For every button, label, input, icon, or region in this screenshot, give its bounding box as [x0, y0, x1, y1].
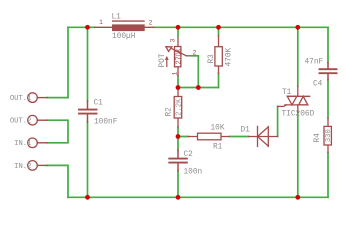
svg-text:100n: 100n	[184, 169, 203, 177]
junction dot bottom C1	[85, 195, 90, 200]
junction dot top triac	[295, 25, 300, 30]
wire right branch C4 R4	[327, 27, 329, 197]
wire top net	[68, 26, 328, 28]
wire IN.2 to bottom rail	[47, 165, 68, 197]
svg-text:C2: C2	[184, 151, 194, 159]
svg-text:1: 1	[99, 19, 103, 26]
wire OUT.1 stub	[47, 97, 68, 99]
junction dot top C1	[85, 25, 90, 30]
svg-text:T1: T1	[282, 89, 292, 97]
capacitor C1	[79, 101, 97, 122]
triac T1	[278, 86, 310, 112]
svg-text:R4: R4	[314, 133, 322, 143]
connector IN.1	[28, 138, 38, 148]
wire R2 bottom	[177, 127, 179, 137]
resistor R2	[174, 90, 182, 128]
wire OUT.2 to IN.1 bracket	[47, 120, 68, 143]
potentiometer POT	[166, 38, 191, 76]
resistor R4	[324, 118, 331, 153]
resistor R3	[215, 36, 222, 74]
wire POT branch	[177, 27, 179, 87]
svg-text:L1: L1	[112, 14, 122, 22]
wire POT wiper green part	[191, 55, 199, 57]
junction dot POT bottom	[176, 85, 181, 90]
svg-text:100µH: 100µH	[112, 33, 136, 41]
wire diac to gate vertical	[277, 106, 279, 136]
inductor L1	[95, 21, 154, 30]
svg-text:TIC206D: TIC206D	[282, 111, 315, 119]
svg-text:C4: C4	[313, 81, 323, 89]
resistor R1	[189, 133, 230, 140]
junction dot wiper bottom	[196, 85, 201, 90]
svg-text:2.2K: 2.2K	[176, 98, 184, 116]
junction dot R2 R1 C2	[176, 134, 181, 139]
connector OUT.2	[28, 115, 38, 125]
svg-text:3: 3	[169, 39, 176, 43]
wire bottom net	[68, 196, 328, 198]
svg-text:OUT.1: OUT.1	[10, 95, 32, 103]
wire triac branch	[297, 27, 299, 197]
svg-text:IN.1: IN.1	[14, 140, 31, 148]
connector OUT.1	[28, 93, 38, 103]
POT adjust arrow glyph	[165, 56, 169, 67]
svg-text:POT: POT	[159, 53, 167, 67]
wire R1 row	[178, 136, 249, 138]
svg-text:100nF: 100nF	[94, 119, 118, 127]
wire C1 branch	[87, 27, 89, 197]
svg-text:470K: 470K	[226, 47, 234, 66]
svg-text:D1: D1	[241, 127, 251, 135]
junction dot top R3	[216, 25, 221, 30]
svg-text:2: 2	[193, 50, 197, 57]
capacitor C2	[169, 150, 187, 171]
wire left vertical (OUT.1 to top)	[67, 27, 69, 97]
svg-text:R1: R1	[213, 144, 223, 152]
wire R3 branch	[218, 27, 220, 87]
svg-text:10K: 10K	[211, 124, 225, 132]
svg-text:2: 2	[149, 20, 153, 27]
wire C2 branch	[177, 137, 179, 198]
capacitor C4	[320, 63, 337, 80]
junction dot bottom C2	[176, 195, 181, 200]
diode D1 diac	[249, 126, 278, 146]
junction dot bottom triac	[295, 195, 300, 200]
svg-text:R3: R3	[208, 54, 216, 64]
svg-text:IN.2: IN.2	[14, 163, 31, 171]
svg-text:47nF: 47nF	[305, 59, 324, 67]
svg-text:C1: C1	[94, 100, 104, 108]
svg-text:330: 330	[325, 129, 333, 142]
svg-text:R2: R2	[166, 107, 174, 117]
wire middle junction row	[178, 87, 219, 89]
wire POT wiper	[197, 56, 199, 88]
junction dot top POT	[176, 25, 181, 30]
connector IN.2	[28, 161, 38, 171]
svg-text:1: 1	[172, 72, 179, 76]
svg-text:OUT.2: OUT.2	[10, 118, 32, 126]
svg-text:270k: 270k	[174, 48, 183, 64]
